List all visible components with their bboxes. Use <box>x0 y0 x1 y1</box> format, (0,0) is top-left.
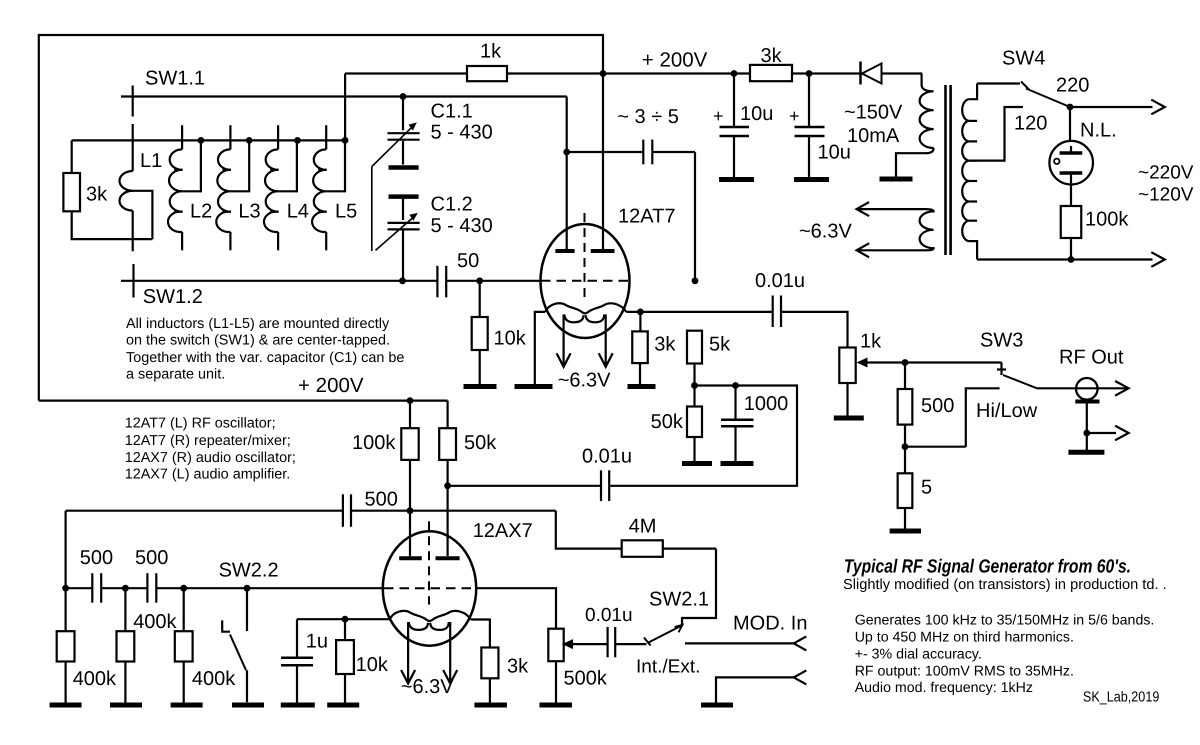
svg-text:Typical RF Signal Generator fr: Typical RF Signal Generator from 60's. <box>844 556 1131 577</box>
label ~150V 10mA <box>844 101 903 146</box>
wire mains neutral line <box>977 258 1152 260</box>
capacitor 1u <box>281 619 313 702</box>
wire MOD In hot <box>685 642 794 644</box>
ground (HV secondary) <box>880 177 913 182</box>
transformer HV secondary winding <box>896 74 934 177</box>
svg-text:10u: 10u <box>818 142 851 164</box>
svg-text:L5: L5 <box>335 201 357 223</box>
svg-text:0.01u: 0.01u <box>582 446 632 468</box>
label SW4 <box>1002 48 1045 70</box>
ground (10k grid leak) <box>464 384 497 389</box>
label 500 first <box>80 547 113 569</box>
svg-text:~6.3V: ~6.3V <box>401 676 454 698</box>
svg-text:~6.3V: ~6.3V <box>799 221 852 243</box>
svg-text:1000: 1000 <box>744 393 789 415</box>
tube 12AX7 grid (dashed) <box>384 587 475 589</box>
ground (1u) <box>281 703 315 708</box>
svg-text:~150V: ~150V <box>844 101 903 123</box>
wire tank bus <box>72 139 345 141</box>
transformer primary winding <box>962 84 977 260</box>
node 400k-2 junction <box>122 585 129 592</box>
node 5k/50k junction <box>691 382 698 389</box>
label 10u second <box>818 142 851 164</box>
svg-text:50k: 50k <box>651 411 684 433</box>
label 100k plate <box>352 432 396 454</box>
label SW1.2 <box>143 286 203 308</box>
switch SW2.2 blade <box>230 635 247 703</box>
node 100k/500 junction <box>407 507 414 514</box>
svg-text:3k: 3k <box>761 45 783 67</box>
capacitor 0.01u (audio feedback) <box>601 470 609 501</box>
ground (10k 12AX7) <box>327 703 359 708</box>
resistor 3k (12AX7 cathode) <box>481 648 498 703</box>
arrow 6.3V bottom <box>857 243 870 257</box>
svg-text:500: 500 <box>135 547 168 569</box>
ground (500k pot) <box>539 703 572 708</box>
capacitor 500 (feedback upper) <box>343 494 351 527</box>
label 10u first <box>740 103 773 125</box>
switch SW1.2 pole tick <box>132 264 134 298</box>
resistor 3k (12AT7 cathode) <box>632 312 648 384</box>
svg-text:100k: 100k <box>352 432 396 454</box>
pot 1k wiper arrow <box>857 358 906 368</box>
svg-text:L2: L2 <box>190 201 212 223</box>
capacitor 10u second <box>795 74 825 178</box>
ground (400k second) <box>110 703 142 708</box>
svg-text:12AX7 (L) audio amplifier.: 12AX7 (L) audio amplifier. <box>125 466 291 482</box>
tube 12AT7 cathode <box>545 303 626 313</box>
ground (400k first) <box>50 703 82 708</box>
label 0.01u mid <box>582 446 632 468</box>
resistor 400k (second) <box>117 588 135 702</box>
tube 12AT7 anode plates <box>555 249 614 253</box>
resistor 100k (12AX7 plate) <box>401 401 418 511</box>
label 3k 12AX7 <box>507 655 529 677</box>
pot 500k wiper arrow <box>562 639 608 649</box>
resistor 500 (divider) <box>898 363 913 447</box>
arrow 6.3V top <box>857 202 870 216</box>
capacitor C1.1 (variable 5-430) <box>388 97 420 168</box>
capacitor 0.01u (mod coupling) <box>608 627 616 657</box>
svg-text:120: 120 <box>1014 113 1047 135</box>
label ~220V <box>1138 163 1194 184</box>
switch SW3 blade <box>1003 375 1037 388</box>
label 5 divider <box>921 476 932 498</box>
wire 120 tap stub <box>969 107 1023 161</box>
svg-text:SW2.1: SW2.1 <box>649 589 709 611</box>
svg-text:400k: 400k <box>133 611 177 633</box>
label SW1.1 <box>145 67 205 89</box>
wire ~3/5 down to grid node <box>694 152 696 281</box>
label +200V top <box>642 49 708 72</box>
switch SW1.2 line / grid wire <box>121 280 541 282</box>
label L3 <box>238 201 260 223</box>
diode rectifier <box>861 62 882 85</box>
wire 5k bottom node <box>695 364 736 407</box>
switch SW2.2 pole <box>246 588 248 631</box>
resistor 4M <box>622 540 663 557</box>
svg-text:RF Out: RF Out <box>1059 347 1124 369</box>
wire cap to SW2.1 pole <box>615 643 646 645</box>
wire L1 center tap <box>127 191 152 239</box>
wire RF out line <box>1037 387 1129 389</box>
switch SW3 Hi contact tick <box>997 363 1006 376</box>
tube 12AX7 anode plates <box>399 556 459 560</box>
svg-text:All inductors (L1-L5) are moun: All inductors (L1-L5) are mounted direct… <box>126 316 390 332</box>
label L4 <box>287 201 309 223</box>
label 1000 <box>744 393 789 415</box>
resistor 100k (bleeder) <box>1061 185 1082 260</box>
capacitor 0.01u (RF out coupling) <box>773 296 781 328</box>
note text tube functions <box>125 416 296 483</box>
wire 1k/+200V top rail <box>345 72 922 74</box>
label 0.01u top <box>755 270 805 292</box>
node 100k plate junction <box>407 397 414 404</box>
node bus left corner <box>62 585 69 592</box>
resistor 10k (12AX7 cathode) <box>336 619 354 702</box>
label 50k plate <box>464 432 497 454</box>
node 10u-2 junction <box>806 70 813 77</box>
ground (10u second) <box>794 177 829 182</box>
potentiometer 1k (RF level) <box>839 348 855 416</box>
svg-text:5 - 430: 5 - 430 <box>431 215 493 237</box>
label Hi/Low <box>976 400 1038 422</box>
node 1k rail junction <box>600 70 607 77</box>
svg-text:+: + <box>713 106 724 126</box>
node 10k cathode junction <box>342 616 349 623</box>
svg-text:+- 3% dial accuracy.: +- 3% dial accuracy. <box>855 646 982 662</box>
resistor 50k (mixer) <box>687 407 702 462</box>
label 120 <box>1014 113 1047 135</box>
label L1 <box>140 150 162 172</box>
svg-text:SW4: SW4 <box>1002 48 1045 70</box>
label 1k <box>480 41 502 63</box>
wire 12AT7 cathode to ground <box>535 312 545 384</box>
node 400k-3 junction <box>180 585 187 592</box>
node mains neutral junction <box>1068 256 1075 263</box>
label 1k pot <box>860 331 882 353</box>
ground (RF out) <box>1068 450 1104 455</box>
node C1.1 top <box>400 93 407 100</box>
label 12AT7 <box>618 205 675 227</box>
svg-text:10k: 10k <box>356 654 389 676</box>
switch SW4 blade <box>1026 89 1070 108</box>
node 50k/0.01u junction <box>444 482 451 489</box>
wire cap to 1k pot <box>781 312 848 348</box>
arrow MOD In return <box>794 670 807 684</box>
ground (10u first) <box>719 177 754 182</box>
svg-text:4M: 4M <box>629 516 657 538</box>
capacitor ~3/5 (trimmer) <box>643 140 652 165</box>
svg-text:~ 3 ÷ 5: ~ 3 ÷ 5 <box>617 106 679 128</box>
tube 12AT7 center divider (dashed) <box>584 213 586 297</box>
label + second <box>789 106 800 126</box>
svg-text:+ 200V: + 200V <box>642 49 708 72</box>
svg-text:400k: 400k <box>73 668 117 690</box>
ground (divider) <box>890 529 921 534</box>
capacitor 500 (first) <box>92 573 101 603</box>
tube 12AX7 heater lead arrows <box>401 622 457 684</box>
resistor 5k <box>687 331 702 364</box>
wire to ~3/5 cap <box>567 151 695 153</box>
wire +200V frame loop (left border / top border / right drop to 12AT7 anode) <box>39 35 603 401</box>
svg-text:Hi/Low: Hi/Low <box>976 400 1038 422</box>
node grid2/5k junction <box>692 277 699 284</box>
label ~6.3V transformer <box>799 221 852 243</box>
transformer 6.3V winding <box>920 209 934 250</box>
svg-text:RF output: 100mV RMS to 35MHz.: RF output: 100mV RMS to 35MHz. <box>855 663 1074 679</box>
node SW2.2 pole junction <box>244 585 251 592</box>
resistor 1k (12AT7 plate) <box>467 66 507 81</box>
resistor 50k (12AX7 plate) <box>439 401 456 556</box>
wire 50k to 0.01u <box>448 485 601 487</box>
svg-text:100k: 100k <box>1085 209 1129 231</box>
svg-text:0.01u: 0.01u <box>755 270 805 292</box>
svg-text:Together with the var. capacit: Together with the var. capacitor (C1) ca… <box>126 350 404 366</box>
svg-text:1k: 1k <box>860 331 882 353</box>
svg-text:500: 500 <box>80 547 113 569</box>
svg-text:L1: L1 <box>140 150 162 172</box>
wire 12AT7 cathode line right <box>626 311 772 313</box>
svg-text:1u: 1u <box>306 631 328 653</box>
svg-text:C1.1: C1.1 <box>431 101 473 123</box>
resistor 10k (12AT7 grid leak) <box>472 281 488 384</box>
svg-text:3k: 3k <box>86 184 108 206</box>
label ~3/5 <box>617 106 679 128</box>
node 1000 junction <box>732 382 739 389</box>
svg-text:5: 5 <box>921 476 932 498</box>
ground (MOD In) <box>701 703 733 708</box>
arrow mains top <box>1151 100 1165 115</box>
tube 12AX7 heater <box>409 622 449 630</box>
svg-text:Int./Ext.: Int./Ext. <box>636 656 700 677</box>
label ~6.3V (12AX7) <box>401 676 454 698</box>
label 10k 12AX7 <box>356 654 389 676</box>
svg-text:MOD. In: MOD. In <box>733 613 807 635</box>
wire wiper to SW3 Hi contact <box>905 361 1002 363</box>
capacitor 10u first <box>720 74 750 178</box>
label 500 upper <box>365 488 398 510</box>
svg-text:L3: L3 <box>238 201 260 223</box>
label 0.01u bottom <box>585 605 633 626</box>
resistor 400k (third) <box>175 588 193 702</box>
svg-text:SW2.2: SW2.2 <box>219 559 279 581</box>
label 220 <box>1056 75 1089 97</box>
svg-text:1k: 1k <box>480 41 502 63</box>
svg-text:Up to 450 MHz on third harmoni: Up to 450 MHz on third harmonics. <box>855 629 1074 645</box>
potentiometer 500k <box>548 629 563 703</box>
label 3k tank <box>86 184 108 206</box>
svg-text:on the switch (SW1) & are cent: on the switch (SW1) & are center-tapped. <box>126 333 390 349</box>
transformer core <box>946 85 951 255</box>
svg-text:50k: 50k <box>464 432 497 454</box>
label 1u <box>306 631 328 653</box>
wire 12AX7 cathode right line <box>471 620 490 648</box>
resistor 3k (PSU filter) <box>750 65 792 81</box>
ground (12AT7 3k) <box>628 384 656 389</box>
wire mains hot line <box>1070 106 1153 108</box>
svg-text:a separate unit.: a separate unit. <box>126 367 225 383</box>
label 500 second <box>135 547 168 569</box>
switch SW4 220 contact tick <box>1021 82 1029 90</box>
capacitor 50 (grid coupling) <box>437 266 446 298</box>
label 100k bleeder <box>1085 209 1129 231</box>
svg-text:10k: 10k <box>494 328 527 350</box>
spec text <box>855 612 1155 696</box>
label 50k <box>651 411 684 433</box>
inductor L4 <box>264 125 297 250</box>
label C1.1 <box>431 101 493 144</box>
note text inductors <box>126 316 404 383</box>
label 12AX7 <box>473 520 533 542</box>
svg-text:3k: 3k <box>654 333 676 355</box>
svg-text:220: 220 <box>1056 75 1089 97</box>
node tank bus junction <box>198 137 205 144</box>
title text <box>844 556 1131 577</box>
wire 12AX7 cathode left line <box>297 618 390 620</box>
tube 12AT7 heater lead arrows <box>557 314 613 366</box>
svg-text:Generates 100 kHz to 35/150MHz: Generates 100 kHz to 35/150MHz in 5/6 ba… <box>855 612 1155 628</box>
svg-text:12AX7: 12AX7 <box>473 520 533 542</box>
label 10k <box>494 328 527 350</box>
svg-text:~220V: ~220V <box>1138 163 1194 184</box>
wire 12AT7 left anode lead from SW1.1 <box>566 97 568 250</box>
node C1.2 bottom <box>399 277 406 284</box>
tube 12AT7 heater <box>564 314 604 322</box>
arrow RF out <box>1115 381 1129 396</box>
tube 12AX7 cathode <box>390 611 471 621</box>
switch SW2.2 contact <box>222 620 230 631</box>
label +200V bottom <box>298 374 364 397</box>
node ~3/5 branch <box>563 149 570 156</box>
label 500 divider <box>921 395 954 417</box>
tube 12AX7 envelope <box>383 531 476 645</box>
svg-text:SW1.1: SW1.1 <box>145 67 205 89</box>
tube 12AT7 grid (dashed) <box>541 280 629 282</box>
ground (50k) <box>682 461 712 466</box>
svg-text:5 - 430: 5 - 430 <box>431 122 493 144</box>
node tank bus junction <box>246 137 253 144</box>
svg-text:10u: 10u <box>740 103 773 125</box>
label 500k <box>564 667 608 689</box>
ground (400k third) <box>171 703 203 708</box>
svg-text:12AT7 (L) RF oscillator;: 12AT7 (L) RF oscillator; <box>125 416 276 432</box>
wire 1000-node to 0.01u feedback <box>609 386 797 486</box>
label 4M <box>629 516 657 538</box>
inductor L2 <box>168 125 201 250</box>
ground (1000) <box>721 461 754 466</box>
ground (12AT7 cathode left) <box>515 384 553 389</box>
ground (3k 12AX7) <box>474 703 507 708</box>
inductor L1 <box>119 124 132 251</box>
subtitle text <box>843 577 1167 593</box>
svg-text:Audio mod. frequency: 1kHz: Audio mod. frequency: 1kHz <box>855 680 1033 696</box>
switch SW2.1 blade <box>648 625 683 643</box>
arrow RF shield <box>1115 426 1129 441</box>
svg-text:400k: 400k <box>192 668 236 690</box>
node cathode/3k junction <box>637 309 644 316</box>
tube 12AX7 center divider (dashed) <box>428 521 430 604</box>
node tank bus junction <box>294 137 301 144</box>
svg-text:C1.2: C1.2 <box>431 194 473 216</box>
connector RF Out jack <box>1075 378 1099 450</box>
gang link arrows of C1 <box>372 122 418 251</box>
wire 4M branch <box>556 511 716 626</box>
wire grid bus 12AX7 <box>66 587 384 589</box>
svg-text:SW1.2: SW1.2 <box>143 286 203 308</box>
inductor L5 <box>312 125 345 250</box>
svg-text:12AX7 (R) audio oscillator;: 12AX7 (R) audio oscillator; <box>125 450 296 466</box>
label SW3 <box>980 329 1023 351</box>
svg-text:500: 500 <box>921 395 954 417</box>
wire 12AX7 right grid to pot <box>476 588 557 629</box>
wire vertical from 1k rail down to tank bus <box>344 74 346 141</box>
svg-text:10mA: 10mA <box>847 125 900 147</box>
svg-text:5k: 5k <box>709 333 731 355</box>
lamp N.L. neon <box>1049 107 1093 185</box>
switch SW1.1 line <box>121 95 567 97</box>
capacitor 500 (second) <box>147 573 156 603</box>
svg-text:500: 500 <box>365 488 398 510</box>
label 400k first <box>73 668 117 690</box>
svg-text:SW3: SW3 <box>980 329 1023 351</box>
wire 12AX7 left anode lead <box>409 511 411 557</box>
label 5k <box>709 333 731 355</box>
switch SW2.1 pole tick <box>644 638 651 646</box>
node 10u-1 junction <box>731 70 738 77</box>
wire RF shield stub <box>1087 432 1116 434</box>
node tank bus junction <box>342 137 349 144</box>
label 400k third <box>192 668 236 690</box>
resistor 3k (tank) <box>63 173 80 211</box>
svg-text:50: 50 <box>457 250 479 272</box>
label ~6.3V (12AT7) <box>558 370 611 392</box>
wire anode/500 line <box>66 510 556 512</box>
label RF Out <box>1059 347 1124 369</box>
svg-text:3k: 3k <box>507 655 529 677</box>
svg-text:~120V: ~120V <box>1138 185 1194 206</box>
svg-text:Slightly modified (on transist: Slightly modified (on transistors) in pr… <box>843 577 1167 593</box>
label 3k cathode <box>654 333 676 355</box>
svg-text:N.L.: N.L. <box>1080 120 1117 142</box>
label + first <box>713 106 724 126</box>
wire left drop to grid bus <box>64 511 66 589</box>
svg-text:+ 200V: + 200V <box>298 374 364 397</box>
ground (SW2.2) <box>232 703 264 708</box>
inductor L3 <box>216 125 249 250</box>
wire primary top to SW4 <box>977 82 1020 84</box>
svg-text:0.01u: 0.01u <box>585 605 633 626</box>
resistor 5 (divider) <box>898 447 913 529</box>
label N.L. <box>1080 120 1117 142</box>
resistor 400k (first) <box>57 588 75 702</box>
label 400k second <box>133 611 177 633</box>
label SW2.2 <box>219 559 279 581</box>
node SW4 pole <box>1067 104 1074 111</box>
svg-text:SK_Lab,2019: SK_Lab,2019 <box>1083 690 1159 706</box>
wire MOD In return <box>716 677 794 702</box>
svg-text:+: + <box>789 106 800 126</box>
wire +200V bottom rail <box>39 400 448 402</box>
label 50 <box>457 250 479 272</box>
wire Low stub <box>905 388 1000 446</box>
arrow mains bottom <box>1151 252 1165 267</box>
label MOD. In <box>733 613 807 635</box>
svg-text:500k: 500k <box>564 667 608 689</box>
svg-text:L4: L4 <box>287 201 309 223</box>
tube 12AT7 envelope <box>541 224 630 338</box>
wire 6.3V leads <box>857 209 927 250</box>
